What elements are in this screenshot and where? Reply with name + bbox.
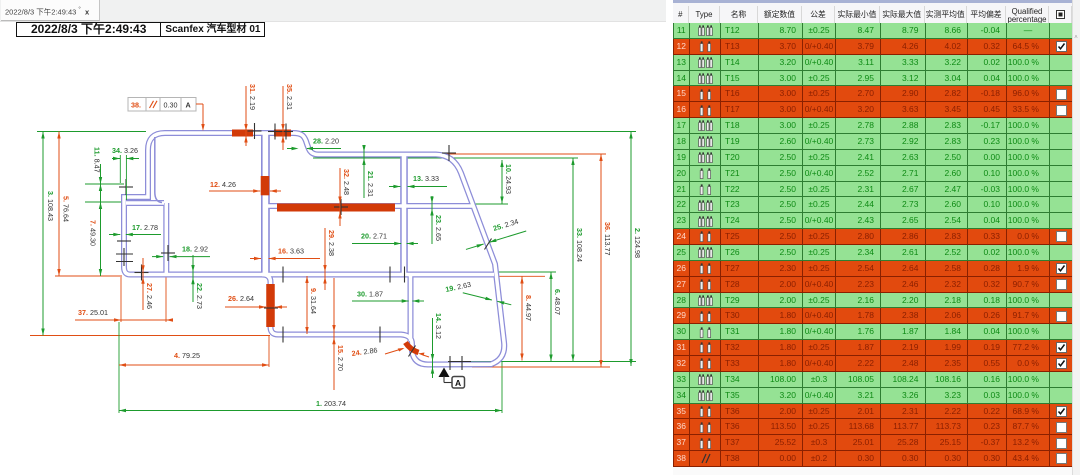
wire ext dim33 <box>313 157 578 159</box>
wire ext dim37 right <box>165 277 167 322</box>
dim 24 <box>351 345 429 358</box>
svg-text:27. 2.46: 27. 2.46 <box>145 283 154 309</box>
dim 31 <box>244 84 257 146</box>
svg-text:14. 3.12: 14. 3.12 <box>434 313 443 339</box>
wire ext dim1 left <box>118 322 120 413</box>
node crosses <box>116 123 492 370</box>
wire ext dim37 left <box>120 277 122 322</box>
wire ext dim5 bot <box>55 275 122 277</box>
svg-text:37. 25.01: 37. 25.01 <box>78 308 108 317</box>
wire ext bottom-right red <box>472 366 610 368</box>
dim 3 <box>41 132 55 336</box>
wire ext dim6 top <box>497 271 556 273</box>
highlight seg 12 <box>261 176 270 195</box>
svg-text:31. 2.19: 31. 2.19 <box>248 84 257 110</box>
dim 26 <box>225 294 287 309</box>
dim 36 <box>599 154 612 367</box>
svg-text:19. 2.63: 19. 2.63 <box>445 280 472 294</box>
svg-text:A: A <box>186 101 191 110</box>
datum A <box>439 368 465 389</box>
svg-text:7. 49.30: 7. 49.30 <box>89 220 98 246</box>
svg-text:21. 2.31: 21. 2.31 <box>366 171 375 197</box>
svg-text:0.30: 0.30 <box>164 101 178 110</box>
svg-text:30. 1.87: 30. 1.87 <box>357 290 383 299</box>
svg-text:9. 31.64: 9. 31.64 <box>309 288 318 314</box>
dim 4 <box>119 351 269 367</box>
svg-text:6. 48.07: 6. 48.07 <box>553 289 562 315</box>
svg-text:4. 79.25: 4. 79.25 <box>174 351 200 360</box>
dim 15 <box>332 278 345 390</box>
dim 12 <box>209 180 281 193</box>
dim 7 <box>89 184 103 276</box>
svg-text:3. 108.43: 3. 108.43 <box>46 191 55 221</box>
left drawing panel <box>0 0 680 475</box>
dim 5 <box>57 132 70 277</box>
svg-text:A: A <box>455 378 461 388</box>
svg-text:35. 2.31: 35. 2.31 <box>285 84 294 110</box>
wire ext dim11 top <box>85 183 124 185</box>
dim 13 <box>389 174 447 188</box>
svg-text:38.: 38. <box>131 101 141 110</box>
svg-text:24. 2.86: 24. 2.86 <box>351 345 378 358</box>
highlight seg 26 <box>266 284 275 327</box>
svg-text:26. 2.64: 26. 2.64 <box>228 294 254 303</box>
wire ext top-left <box>37 131 146 133</box>
svg-text:8. 44.97: 8. 44.97 <box>524 295 533 321</box>
dim 17 <box>109 223 161 236</box>
tab bar <box>1 0 100 21</box>
wire ext dim3 bot <box>30 335 270 337</box>
svg-text:33. 108.24: 33. 108.24 <box>575 228 584 262</box>
dim 10 <box>500 160 513 204</box>
dim 27 <box>141 258 154 310</box>
wire ext dim36 <box>313 153 606 155</box>
highlight seg 32 <box>277 204 395 212</box>
dim 23 <box>430 196 443 244</box>
scrollbar strip <box>1072 0 1080 475</box>
dim 9 <box>305 276 318 334</box>
wire ext dim34 <box>119 155 121 183</box>
svg-text:11. 8.47: 11. 8.47 <box>93 147 102 173</box>
svg-text:10. 24.93: 10. 24.93 <box>504 164 513 194</box>
dim 25 <box>465 229 526 251</box>
wire ext top-right <box>300 131 636 133</box>
wire ext dim1 right <box>501 362 503 414</box>
svg-text:36. 113.77: 36. 113.77 <box>603 222 612 255</box>
dim 20 <box>352 232 418 246</box>
svg-text:32. 2.48: 32. 2.48 <box>342 169 351 195</box>
svg-text:15. 2.70: 15. 2.70 <box>336 345 345 371</box>
wire ext dim8 top <box>493 275 545 277</box>
svg-text:5. 76.64: 5. 76.64 <box>62 196 71 222</box>
dim 22 <box>191 255 204 309</box>
right table panel <box>673 0 1080 475</box>
svg-text:20. 2.71: 20. 2.71 <box>361 232 387 241</box>
svg-text:28. 2.20: 28. 2.20 <box>313 137 339 146</box>
dim 14 <box>431 313 443 378</box>
dim 11 <box>93 147 103 209</box>
dim 19 <box>462 291 511 306</box>
svg-text:16. 3.63: 16. 3.63 <box>278 247 304 256</box>
svg-text:18. 2.92: 18. 2.92 <box>182 245 208 254</box>
highlight seg 31 <box>232 130 253 137</box>
dim 34 <box>112 146 139 160</box>
wire ext dim4 right <box>268 336 270 367</box>
svg-text:13. 3.33: 13. 3.33 <box>413 174 439 183</box>
title box <box>16 22 265 37</box>
dim 30 <box>352 290 424 303</box>
dim 21 <box>362 145 375 198</box>
dim 38 FCF <box>128 98 205 132</box>
dim 8 <box>520 277 533 361</box>
profile outline <box>124 133 504 365</box>
dim 18 <box>152 245 210 259</box>
dim 28 <box>287 137 341 151</box>
wire ext bottom-right green <box>452 361 636 363</box>
dim 16 <box>250 247 320 261</box>
svg-text:1. 203.74: 1. 203.74 <box>316 399 346 408</box>
svg-text:12. 4.26: 12. 4.26 <box>210 180 236 189</box>
wire ext dim10 <box>474 203 508 205</box>
svg-text:22. 2.73: 22. 2.73 <box>195 283 204 309</box>
svg-text:34. 3.26: 34. 3.26 <box>112 146 138 155</box>
highlight seg 24 <box>406 343 419 353</box>
dim 1 <box>119 399 502 412</box>
svg-text:23. 2.65: 23. 2.65 <box>434 215 443 241</box>
dim 35 <box>281 84 294 150</box>
dim 6 <box>549 272 562 362</box>
svg-text:29. 2.38: 29. 2.38 <box>327 230 336 256</box>
svg-text:25. 2.34: 25. 2.34 <box>492 217 519 233</box>
svg-text:2. 124.98: 2. 124.98 <box>633 228 642 258</box>
svg-text:17. 2.78: 17. 2.78 <box>132 223 158 232</box>
dim 29 <box>323 228 336 290</box>
dim 2 <box>629 132 642 367</box>
dim 32 <box>338 168 351 226</box>
wire ext dim11 bot <box>85 201 122 203</box>
dim 33 <box>571 158 584 362</box>
dim 37 <box>75 308 173 322</box>
highlight seg 35 <box>274 130 291 137</box>
